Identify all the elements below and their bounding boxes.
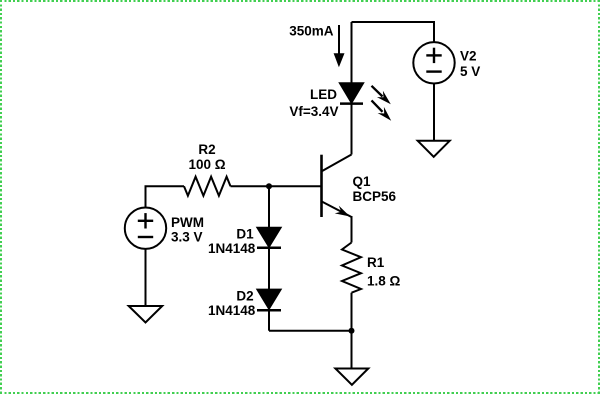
wire LED anode drop bbox=[351, 22, 353, 84]
green dotted frame right bbox=[598, 0, 600, 394]
wire D1 to D2 bbox=[268, 248, 270, 290]
transistor Q1 collector diagonal bbox=[322, 155, 352, 172]
current arrow 350mA bbox=[338, 25, 340, 56]
wire bottom horizontal D2 to ground node bbox=[269, 330, 352, 332]
ground under PWM bbox=[129, 306, 163, 323]
wire PWM bottom lead bbox=[145, 249, 147, 306]
svg-text:100 Ω: 100 Ω bbox=[188, 157, 225, 172]
node junction bottom bbox=[349, 328, 355, 334]
svg-text:1.8 Ω: 1.8 Ω bbox=[367, 274, 401, 289]
svg-text:LED: LED bbox=[310, 87, 337, 102]
svg-text:D2: D2 bbox=[236, 289, 253, 304]
svg-text:Vf=3.4V: Vf=3.4V bbox=[289, 104, 338, 119]
green dotted frame left bbox=[0, 0, 2, 394]
wire node to D1 bbox=[268, 186, 270, 228]
LED cathode bar bbox=[340, 102, 363, 105]
LED light arrow 2 bbox=[372, 100, 383, 111]
wire emitter to R1 bbox=[351, 216, 353, 243]
voltage source V2 bbox=[413, 42, 454, 83]
wire R2 right to base bbox=[231, 185, 322, 187]
node junction base bbox=[266, 183, 272, 189]
svg-text:1N4148: 1N4148 bbox=[208, 303, 256, 318]
ground bottom main bbox=[335, 369, 368, 385]
diode D1 bbox=[258, 228, 281, 247]
green dotted frame bottom bbox=[0, 392, 600, 394]
wire V2 bottom lead bbox=[433, 83, 435, 141]
wire PWM to R2 left bbox=[146, 186, 185, 207]
transistor Q1 emitter diagonal bbox=[322, 201, 352, 217]
svg-text:Q1: Q1 bbox=[353, 174, 372, 189]
svg-text:350mA: 350mA bbox=[289, 24, 334, 39]
ground under V2 bbox=[418, 141, 450, 157]
LED light arrow 1 bbox=[372, 86, 383, 97]
resistor R1 bbox=[342, 243, 361, 293]
transistor Q1 emitter arrow bbox=[335, 206, 350, 217]
wire R1 bottom to ground node bbox=[351, 293, 353, 369]
wire top horizontal rail to V2 bbox=[352, 22, 435, 43]
svg-text:D1: D1 bbox=[236, 227, 254, 242]
diode D2 bbox=[258, 290, 281, 309]
voltage source PWM bbox=[125, 208, 166, 249]
svg-text:BCP56: BCP56 bbox=[353, 189, 397, 204]
svg-text:R2: R2 bbox=[198, 142, 215, 157]
svg-text:V2: V2 bbox=[460, 49, 477, 64]
svg-text:3.3 V: 3.3 V bbox=[171, 230, 203, 245]
green dotted frame top bbox=[0, 0, 600, 2]
svg-text:5 V: 5 V bbox=[460, 64, 480, 79]
wire D2 to bottom rail bbox=[268, 310, 270, 331]
svg-text:PWM: PWM bbox=[171, 215, 204, 230]
resistor R2 bbox=[184, 177, 231, 196]
transistor Q1 base bar bbox=[320, 155, 323, 217]
svg-text:1N4148: 1N4148 bbox=[208, 241, 256, 256]
LED D (led) triangle bbox=[340, 83, 363, 102]
svg-text:R1: R1 bbox=[367, 255, 385, 270]
wire LED cathode to collector bbox=[351, 104, 353, 155]
